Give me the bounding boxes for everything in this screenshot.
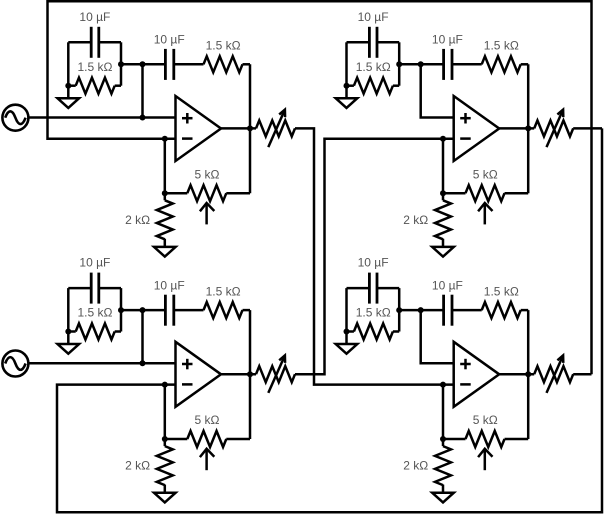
ground (RC network, stage 2) (336, 86, 358, 108)
node (RC network to ground, stage 4) (344, 329, 350, 335)
wire (stage 1 output down to stage 4 inverting input) (295, 128, 454, 384)
wire (RC network top right, stage 1) (99, 41, 121, 44)
node (feedback junction, stage 3) (162, 436, 168, 442)
potentiometer P2 5 kOhm (443, 185, 528, 224)
value label C4b 10 uF (432, 278, 463, 292)
svg-text:5 kΩ: 5 kΩ (473, 413, 498, 427)
node (feedback junction, stage 1) (162, 190, 168, 196)
variable resistor VR1 (output trim) (256, 110, 295, 148)
op-amp A4 (454, 342, 500, 407)
svg-text:10 µF: 10 µF (432, 278, 463, 292)
wire (RC output to junction, stage 4) (399, 309, 421, 312)
node (input junction, stage 3) (140, 307, 146, 313)
resistor R4a 1.5 kOhm (bypass) (347, 324, 400, 340)
op-amp A3 (176, 342, 222, 407)
wire (op-amp output, stage 4) (499, 373, 534, 376)
value label C1a 10 uF (79, 10, 110, 24)
svg-text:10 µF: 10 µF (154, 278, 185, 292)
svg-text:10 µF: 10 µF (154, 33, 185, 47)
wire (junction to C4b, stage 4) (421, 309, 444, 312)
svg-text:10 µF: 10 µF (358, 10, 389, 24)
node (output, stage 3) (247, 371, 253, 377)
wire (junction to C2b, stage 2) (421, 63, 444, 66)
resistor R3a 1.5 kOhm (bypass) (68, 324, 121, 340)
svg-text:1.5 kΩ: 1.5 kΩ (206, 39, 241, 53)
variable resistor VR2 (output trim) (534, 110, 573, 148)
wire (RC network top right, stage 3) (99, 287, 121, 290)
node (inverting input, stage 3) (162, 382, 168, 388)
svg-text:1.5 kΩ: 1.5 kΩ (206, 284, 241, 298)
wire (junction to C1b, stage 1) (143, 63, 166, 66)
potentiometer P1 5 kOhm (165, 185, 250, 224)
ground (RC network, stage 3) (58, 332, 80, 354)
value label R1b 1.5 kOhm (206, 39, 241, 53)
wire (RC network right branch, stage 4) (398, 288, 401, 331)
svg-text:5 kΩ: 5 kΩ (195, 167, 220, 181)
resistor R2c 2 kOhm (435, 193, 451, 247)
node (noninverting input, stage 3) (140, 360, 146, 366)
wire (inverting input to feedback, stage 1) (164, 139, 167, 193)
svg-text:1.5 kΩ: 1.5 kΩ (356, 60, 391, 74)
value label R2c 2 kOhm (403, 213, 428, 227)
resistor R2b 1.5 kOhm (series) (452, 56, 528, 72)
capacitor C4a 10 uF (bypass) (369, 273, 377, 304)
wire (RC output to junction, stage 2) (399, 63, 421, 66)
capacitor C4b 10 uF (series) (444, 295, 452, 326)
wire (feedback branch, stage 3) (249, 310, 252, 439)
capacitor C3b 10 uF (series) (165, 295, 173, 326)
wire (op-amp output, stage 3) (221, 373, 256, 376)
value label P4 5 kOhm (473, 413, 498, 427)
value label R3a 1.5 kOhm (78, 306, 113, 320)
ground (stage 1 2 kOhm) (154, 247, 176, 257)
svg-text:1.5 kΩ: 1.5 kΩ (484, 284, 519, 298)
wire (RC network top right, stage 4) (377, 287, 399, 290)
wire (stage 4 variable resistor to right edge) (573, 373, 591, 376)
AC source V3 (2, 351, 28, 377)
wire (stage 4 output feedback: right edge up, top edge, left edge down to stage 1 inverting input) (48, 1, 592, 374)
wire (source to noninverting input, stage 1) (28, 116, 175, 119)
value label C4a 10 uF (358, 256, 389, 270)
svg-text:10 µF: 10 µF (358, 256, 389, 270)
wire (junction to noninverting input, stage 1) (141, 64, 144, 117)
node (RC network to ground, stage 2) (344, 83, 350, 89)
wire (RC output to junction, stage 1) (121, 63, 143, 66)
value label C1b 10 uF (154, 33, 185, 47)
svg-text:10 µF: 10 µF (79, 10, 110, 24)
wire (junction to noninverting input, stage 3) (141, 310, 144, 363)
wire (RC network left branch, stage 3) (67, 288, 70, 331)
wire (inverting input to feedback, stage 3) (164, 385, 167, 439)
wire (stage 2 variable resistor to right edge) (573, 127, 602, 130)
node (inverting input, stage 1) (162, 136, 168, 142)
node (feedback junction, stage 2) (440, 190, 446, 196)
value label C3a 10 uF (79, 256, 110, 270)
wire (RC network top, stage 3) (68, 287, 91, 290)
wire (RC network top, stage 1) (68, 41, 91, 44)
value label C2b 10 uF (432, 33, 463, 47)
value label C2a 10 uF (358, 10, 389, 24)
svg-text:2 kΩ: 2 kΩ (125, 213, 150, 227)
wire (RC network left branch, stage 2) (345, 42, 348, 85)
node (inverting input, stage 4) (440, 382, 446, 388)
node (feedback junction, stage 4) (440, 436, 446, 442)
resistor R4c 2 kOhm (435, 439, 451, 493)
svg-text:1.5 kΩ: 1.5 kΩ (356, 306, 391, 320)
svg-text:5 kΩ: 5 kΩ (195, 413, 220, 427)
resistor R1a 1.5 kOhm (bypass) (68, 78, 121, 94)
value label R3c 2 kOhm (125, 459, 150, 473)
capacitor C1a 10 uF (bypass) (91, 27, 99, 58)
node (RC network output, stage 2) (396, 61, 402, 67)
value label P3 5 kOhm (195, 413, 220, 427)
wire (RC network right branch, stage 3) (120, 288, 123, 331)
value label P2 5 kOhm (473, 167, 498, 181)
value label R2a 1.5 kOhm (356, 60, 391, 74)
svg-text:5 kΩ: 5 kΩ (473, 167, 498, 181)
resistor R2a 1.5 kOhm (bypass) (347, 78, 400, 94)
value label P1 5 kOhm (195, 167, 220, 181)
node (input junction, stage 1) (140, 61, 146, 67)
wire (feedback branch, stage 4) (527, 310, 530, 439)
wire (op-amp output, stage 1) (221, 127, 256, 130)
ground (stage 4 2 kOhm) (432, 493, 454, 503)
node (noninverting input, stage 1) (140, 115, 146, 121)
node (input junction, stage 4) (418, 307, 424, 313)
svg-text:1.5 kΩ: 1.5 kΩ (78, 306, 113, 320)
potentiometer P3 5 kOhm (165, 431, 250, 470)
value label R2b 1.5 kOhm (484, 39, 519, 53)
resistor R4b 1.5 kOhm (series) (452, 302, 528, 318)
capacitor C2a 10 uF (bypass) (369, 27, 377, 58)
wire (RC network right branch, stage 2) (398, 42, 401, 85)
value label R4c 2 kOhm (403, 459, 428, 473)
wire (inverting input to feedback, stage 2) (442, 139, 445, 193)
value label R1a 1.5 kOhm (78, 60, 113, 74)
value label R1c 2 kOhm (125, 213, 150, 227)
resistor R3b 1.5 kOhm (series) (174, 302, 250, 318)
wire (source to noninverting input, stage 3) (28, 362, 175, 365)
node (output, stage 1) (247, 125, 253, 131)
wire (RC network left branch, stage 4) (345, 288, 348, 331)
node (RC network to ground, stage 1) (65, 83, 71, 89)
value label R4b 1.5 kOhm (484, 284, 519, 298)
node (inverting input, stage 2) (440, 136, 446, 142)
node (output, stage 4) (525, 371, 531, 377)
node (RC network output, stage 3) (118, 307, 124, 313)
wire (RC network top right, stage 2) (377, 41, 399, 44)
AC source V1 (2, 105, 28, 131)
wire (RC output to junction, stage 3) (121, 309, 143, 312)
capacitor C2b 10 uF (series) (444, 49, 452, 80)
wire (RC network top, stage 2) (347, 41, 370, 44)
wire (RC network left branch, stage 1) (67, 42, 70, 85)
node (RC network to ground, stage 3) (65, 329, 71, 335)
svg-text:2 kΩ: 2 kΩ (403, 213, 428, 227)
svg-text:1.5 kΩ: 1.5 kΩ (484, 39, 519, 53)
wire (RC network right branch, stage 1) (120, 42, 123, 85)
op-amp A1 (176, 96, 222, 161)
wire (junction to C3b, stage 3) (143, 309, 166, 312)
capacitor C3a 10 uF (bypass) (91, 273, 99, 304)
value label R3b 1.5 kOhm (206, 284, 241, 298)
ground (stage 3 2 kOhm) (154, 493, 176, 503)
wire (feedback branch, stage 2) (527, 64, 530, 193)
wire (junction to noninverting input, stage 4) (421, 310, 454, 363)
wire (inverting input to feedback, stage 4) (442, 385, 445, 439)
wire (RC network top, stage 4) (347, 287, 370, 290)
resistor R3c 2 kOhm (157, 439, 173, 493)
potentiometer P4 5 kOhm (443, 431, 528, 470)
node (RC network output, stage 1) (118, 61, 124, 67)
node (RC network output, stage 4) (396, 307, 402, 313)
ground (RC network, stage 4) (336, 332, 358, 354)
wire (junction to noninverting input, stage 2) (421, 64, 454, 117)
resistor R1b 1.5 kOhm (series) (174, 56, 250, 72)
svg-text:10 µF: 10 µF (79, 256, 110, 270)
node (input junction, stage 2) (418, 61, 424, 67)
value label C3b 10 uF (154, 278, 185, 292)
svg-text:1.5 kΩ: 1.5 kΩ (78, 60, 113, 74)
ground (stage 2 2 kOhm) (432, 247, 454, 257)
wire (stage 2 output: far right edge down, bottom edge, up to stage 3 inverting input) (57, 128, 602, 512)
wire (feedback branch, stage 1) (249, 64, 252, 193)
wire (op-amp output, stage 2) (499, 127, 534, 130)
variable resistor VR3 (output trim) (256, 355, 295, 393)
variable resistor VR4 (output trim) (534, 355, 573, 393)
resistor R1c 2 kOhm (157, 193, 173, 247)
op-amp A2 (454, 96, 500, 161)
value label R4a 1.5 kOhm (356, 306, 391, 320)
capacitor C1b 10 uF (series) (165, 49, 173, 80)
ground (RC network, stage 1) (58, 86, 80, 108)
svg-text:2 kΩ: 2 kΩ (125, 459, 150, 473)
wire (stage 3 output up to stage 2 inverting input) (295, 139, 454, 374)
svg-text:10 µF: 10 µF (432, 33, 463, 47)
svg-text:2 kΩ: 2 kΩ (403, 459, 428, 473)
node (output, stage 2) (525, 125, 531, 131)
